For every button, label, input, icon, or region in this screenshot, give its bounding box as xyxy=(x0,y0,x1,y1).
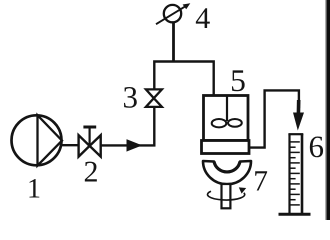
svg-text:5: 5 xyxy=(230,63,246,98)
scan border bar right xyxy=(325,0,327,220)
inner arc emphasis xyxy=(214,162,240,172)
valve V3 xyxy=(146,89,162,107)
svg-text:7: 7 xyxy=(253,166,268,198)
outlet arrow into cylinder xyxy=(297,100,301,114)
impeller blades xyxy=(212,119,227,127)
flow arrow on wire xyxy=(127,139,143,151)
vessel 5 main body xyxy=(204,96,249,141)
wire pump to valve2 xyxy=(60,144,80,146)
vessel 5 bottom jacket xyxy=(202,141,250,154)
svg-text:3: 3 xyxy=(122,80,138,115)
heater/magnetic stirrer 7 half ring xyxy=(203,161,251,184)
gauge stem xyxy=(172,23,175,63)
gauge G4 xyxy=(164,5,181,22)
riser upper segment and top header to vessel xyxy=(154,62,213,97)
pump P1 xyxy=(12,115,63,165)
svg-text:2: 2 xyxy=(84,156,99,189)
stirrer stem xyxy=(222,184,231,208)
outlet piping to cylinder xyxy=(249,90,299,147)
graduated cylinder 6 xyxy=(279,134,311,214)
wire valve2 to riser xyxy=(101,144,156,146)
svg-text:6: 6 xyxy=(309,129,325,164)
svg-text:4: 4 xyxy=(195,2,210,35)
cylinder scale ticks xyxy=(291,142,300,205)
rotation arrow ellipse xyxy=(208,191,245,200)
valve V2 xyxy=(79,127,101,157)
stirrer shaft xyxy=(226,96,228,121)
gauge arrow xyxy=(156,6,187,25)
svg-text:1: 1 xyxy=(27,174,41,205)
riser pipe lower segment xyxy=(153,107,155,147)
